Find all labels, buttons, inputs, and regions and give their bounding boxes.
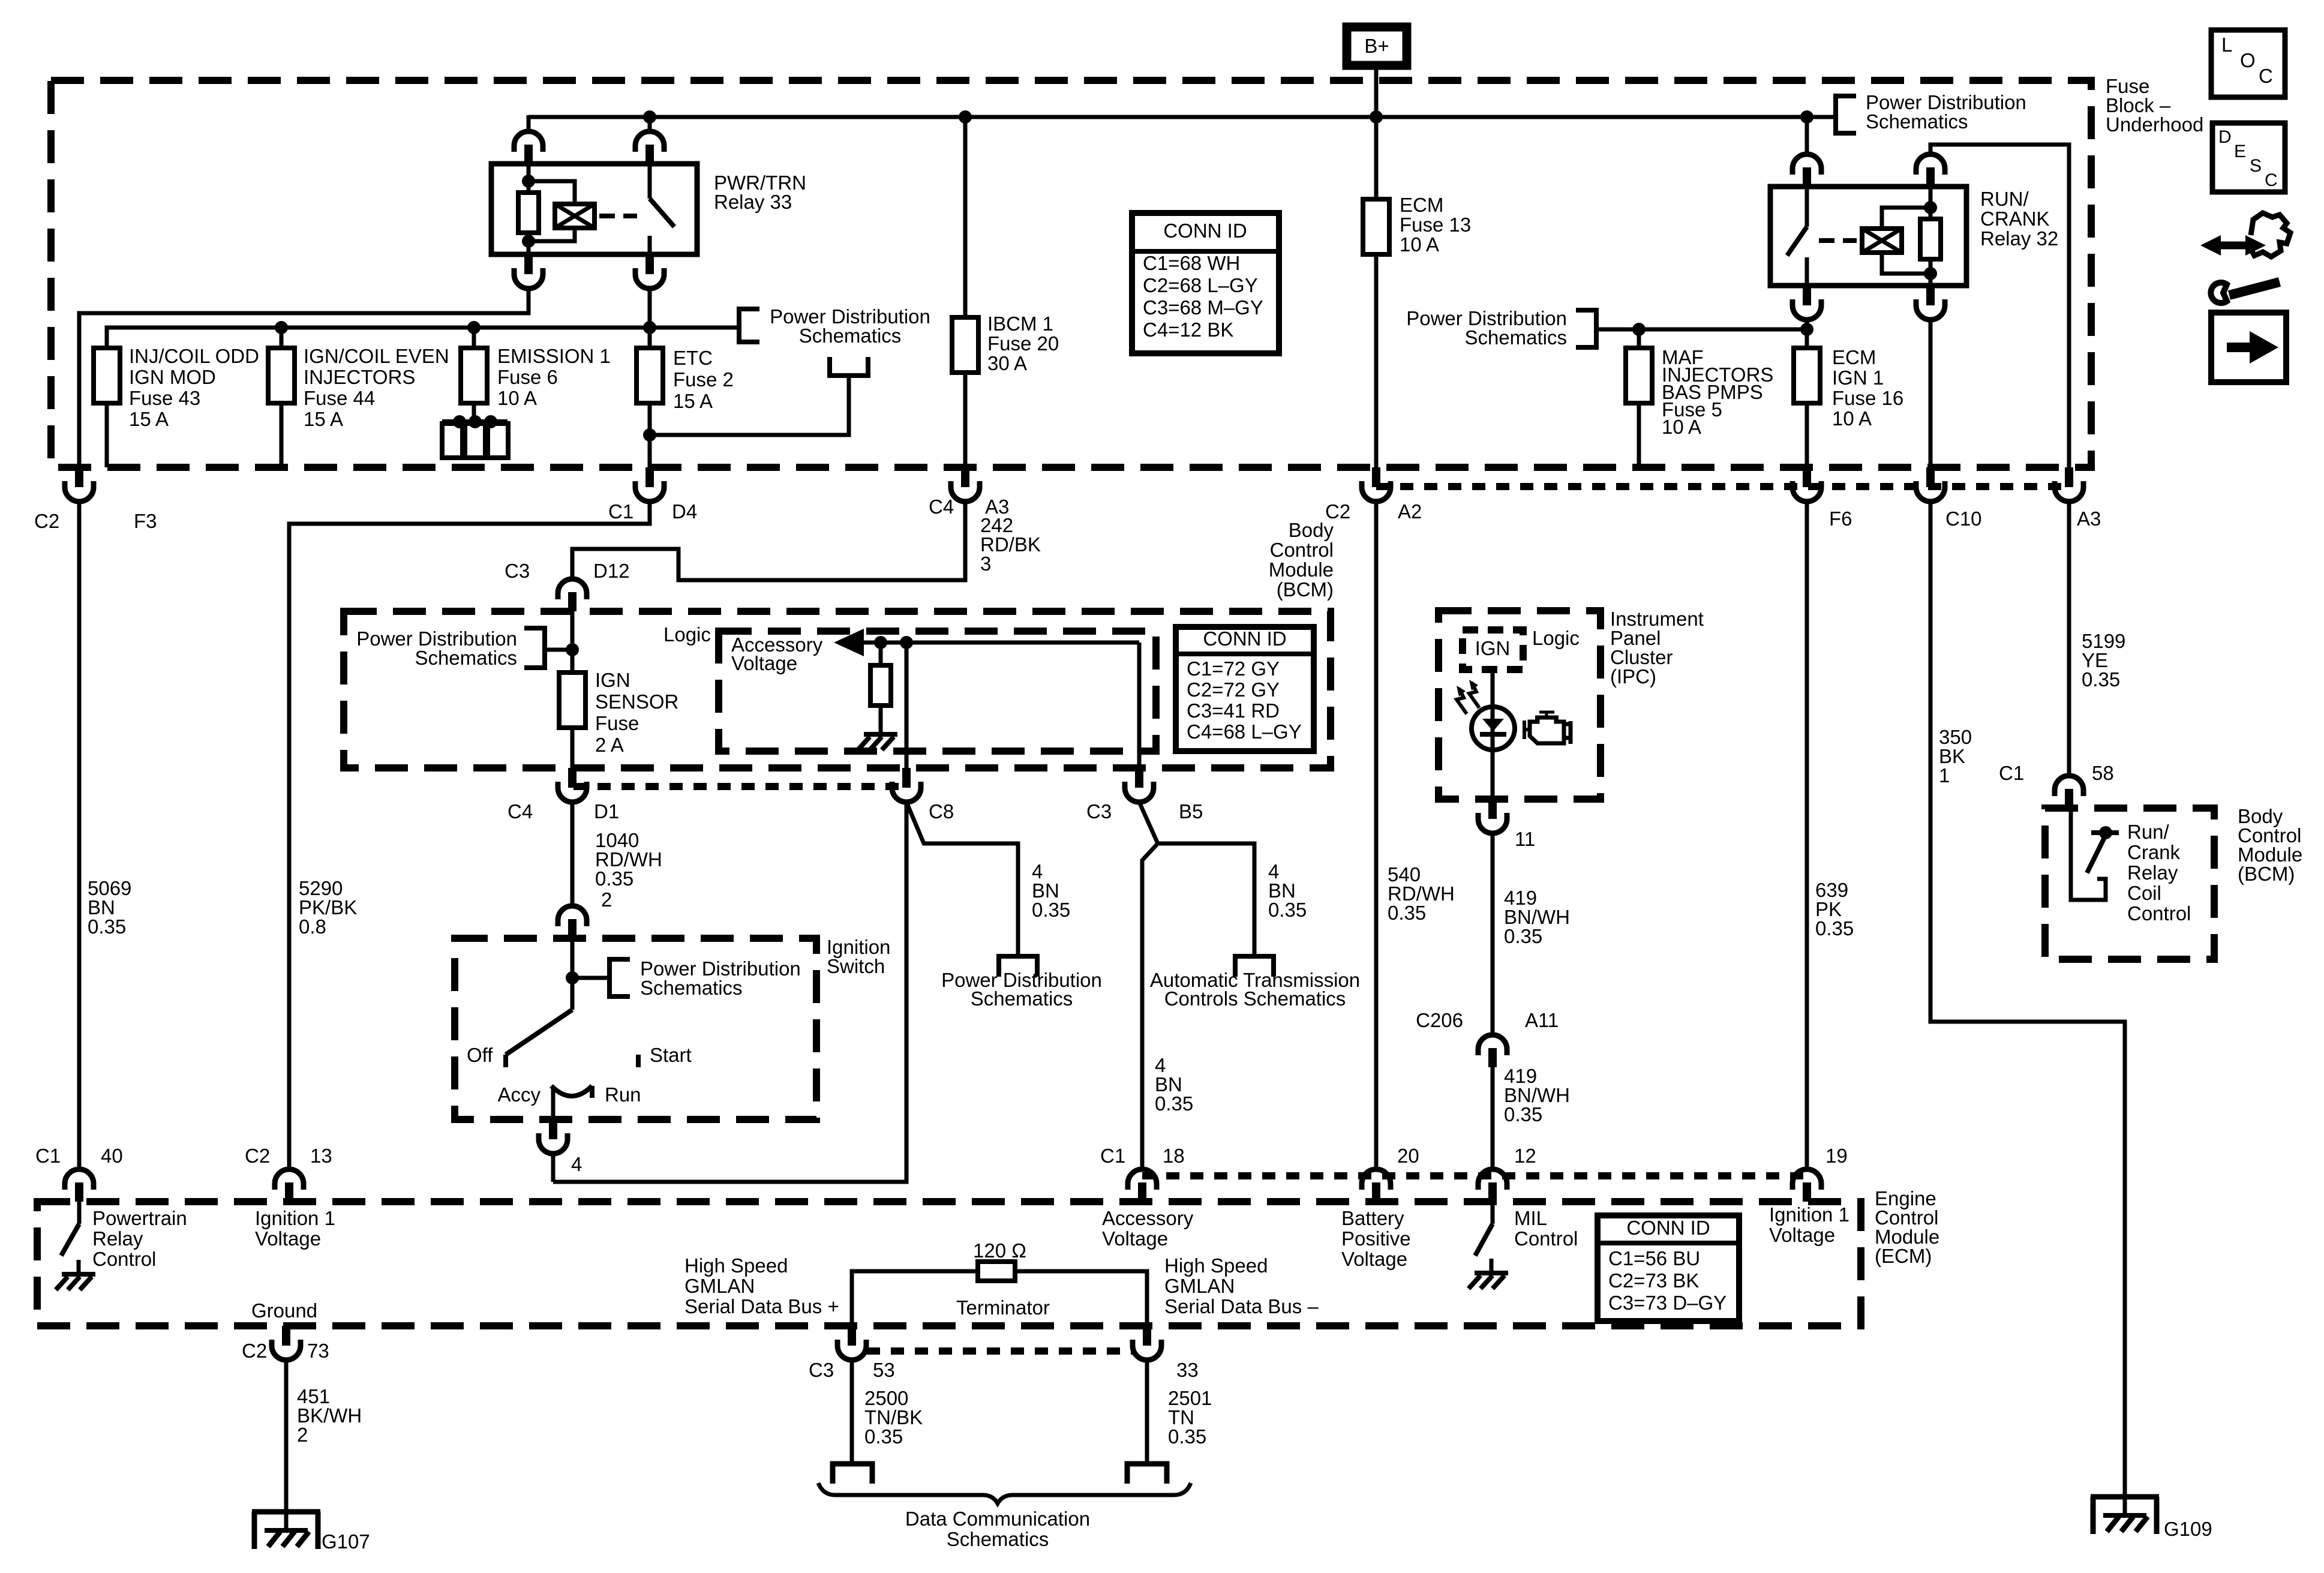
svg-text:C: C: [2259, 65, 2273, 87]
svg-text:Run/: Run/: [2127, 821, 2170, 843]
svg-text:C4: C4: [929, 496, 954, 518]
svg-text:Schematics: Schematics: [640, 977, 743, 999]
fuse F2 ETC: [648, 328, 652, 348]
svg-text:10 A: 10 A: [497, 387, 537, 409]
svg-text:INJ/COIL ODD: INJ/COIL ODD: [129, 345, 259, 367]
svg-text:GMLAN: GMLAN: [1164, 1275, 1235, 1297]
svg-text:L: L: [2221, 34, 2232, 56]
svg-text:Relay 33: Relay 33: [714, 191, 792, 213]
svg-text:Off: Off: [467, 1044, 493, 1066]
svg-text:O: O: [2240, 49, 2256, 71]
svg-text:Ground: Ground: [251, 1299, 317, 1322]
instrument panel cluster box: [1439, 611, 1601, 799]
svg-text:CONN ID: CONN ID: [1203, 628, 1286, 650]
svg-text:Voltage: Voltage: [731, 652, 797, 674]
fuse F43 INJ/COIL ODD: [94, 348, 120, 403]
svg-text:0.35: 0.35: [1168, 1425, 1206, 1448]
svg-text:0.35: 0.35: [864, 1425, 903, 1448]
svg-text:A2: A2: [1398, 500, 1422, 523]
MIL control switch: [1491, 1202, 1495, 1224]
body control module box: [344, 611, 1331, 768]
svg-text:Fuse 20: Fuse 20: [987, 332, 1059, 355]
svg-text:CONN ID: CONN ID: [1626, 1217, 1710, 1239]
svg-text:1: 1: [1939, 764, 1950, 786]
svg-text:0.35: 0.35: [595, 867, 633, 890]
connector C4/A3: [961, 467, 969, 487]
connector C2/A2: [1372, 467, 1380, 487]
svg-text:Fuse 6: Fuse 6: [497, 366, 558, 388]
relay33 coil resistor: [527, 181, 531, 193]
ground MIL control: [1490, 1259, 1494, 1273]
wire B+ to bus: [1374, 68, 1379, 117]
svg-text:Serial Data Bus –: Serial Data Bus –: [1164, 1295, 1319, 1317]
dotted connector face line (ECM): [1142, 1172, 1807, 1179]
relay33 actuator dashes: [599, 214, 637, 218]
svg-text:C4=68 L–GY: C4=68 L–GY: [1187, 721, 1302, 743]
svg-text:Coil: Coil: [2127, 882, 2161, 904]
svg-text:G109: G109: [2164, 1518, 2212, 1540]
wire C8 branch to power dist: [906, 802, 1018, 956]
connector ECM pin 20: [1362, 1169, 1391, 1190]
dotted connector face line (BCM): [574, 783, 905, 790]
icon navigate arrows with wrench: [2220, 242, 2247, 250]
svg-text:30 A: 30 A: [987, 352, 1027, 374]
svg-text:Logic: Logic: [663, 623, 711, 646]
connector ignition pin 4: [549, 1119, 557, 1139]
svg-text:C: C: [2265, 170, 2278, 190]
relay K33 PWR/TRN Relay 33 box: [491, 164, 697, 254]
fuse IGN SENSOR 2A: [559, 673, 585, 728]
svg-text:INJECTORS: INJECTORS: [304, 366, 415, 388]
svg-text:Underhood: Underhood: [2106, 113, 2203, 136]
node rail-etc: [643, 321, 656, 334]
node bus-relay33-sw: [643, 110, 656, 124]
svg-text:B+: B+: [1364, 35, 1389, 57]
svg-text:Schematics: Schematics: [1464, 326, 1567, 349]
relay33 switch blade: [648, 164, 652, 199]
svg-text:Accy: Accy: [497, 1083, 541, 1106]
power feed B+: [1347, 27, 1407, 65]
icon wrench: [2211, 283, 2227, 303]
connector ECM pin 19: [1792, 1169, 1821, 1190]
connector relay32 switch bottom: [1803, 286, 1811, 305]
wire pin 4 to C8: [551, 1154, 556, 1182]
svg-text:0.35: 0.35: [1155, 1092, 1193, 1115]
wire D12 to ign sensor fuse: [571, 611, 575, 673]
svg-text:0.8: 0.8: [299, 915, 326, 938]
svg-text:15 A: 15 A: [304, 408, 343, 430]
svg-text:Module: Module: [1269, 559, 1334, 581]
node av-C8: [900, 636, 913, 649]
ignition switch box: [455, 938, 816, 1119]
svg-text:(IPC): (IPC): [1610, 665, 1656, 688]
connector ECM pin 33: [1143, 1326, 1151, 1346]
wire 540 RD/WH A2 to ECM pin 20: [1374, 502, 1379, 1168]
svg-text:Data Communication: Data Communication: [905, 1508, 1090, 1530]
svg-text:C3=73 D–GY: C3=73 D–GY: [1608, 1292, 1727, 1314]
connector C1/D4: [645, 467, 654, 487]
svg-text:0.35: 0.35: [1268, 899, 1307, 921]
svg-text:C3: C3: [505, 560, 530, 582]
relay33 coil loop: [529, 181, 575, 241]
wire fuse rail: [107, 328, 739, 348]
svg-text:Schematics: Schematics: [415, 647, 517, 669]
relay32 coil resistor: [1924, 201, 1937, 214]
node rail-fuse6: [467, 321, 481, 334]
svg-text:E: E: [2234, 142, 2246, 161]
connector C206/A11: [1478, 1035, 1507, 1055]
svg-text:10 A: 10 A: [1662, 416, 1701, 438]
fuse F44 IGN/COIL EVEN: [280, 328, 284, 348]
relay32 coil loop: [1882, 208, 1930, 274]
wire 5069 BN to ECM pin 40: [77, 502, 82, 1168]
connector ECM pin 13: [275, 1169, 304, 1190]
multi-output symbol below fuse 6: [442, 419, 508, 424]
engine icon: [1539, 711, 1554, 714]
bracket power distribution schematics (rail): [739, 309, 759, 342]
svg-text:Control: Control: [1514, 1227, 1578, 1250]
wire accy output: [551, 1087, 556, 1119]
wire etc to power dist bracket: [650, 376, 849, 435]
svg-text:C2: C2: [34, 510, 59, 532]
connector ECM ground C2/73: [282, 1326, 290, 1346]
svg-text:19: 19: [1825, 1145, 1848, 1167]
connector ECM C1 pin 18: [1128, 1169, 1157, 1190]
wire relay32 coil bottom to C10: [1929, 320, 1933, 467]
svg-text:0.35: 0.35: [1388, 902, 1426, 924]
svg-text:CONN ID: CONN ID: [1163, 220, 1247, 242]
bracket power distribution schematics (rail2): [1576, 310, 1596, 347]
svg-text:IGN: IGN: [1475, 637, 1511, 659]
relay32 switch lower contact: [1805, 257, 1809, 286]
bracket power distribution (etc): [830, 357, 868, 376]
ignition switch blade: [506, 1010, 572, 1055]
node av-resistor: [874, 636, 887, 649]
run crank relay coil control switch: [2071, 808, 2106, 900]
BCM logic box: [719, 631, 1156, 751]
fuse F6 EMISSION 1: [472, 328, 476, 348]
node bus-relay32: [1800, 110, 1813, 124]
connector C10: [1926, 467, 1935, 487]
svg-text:Schematics: Schematics: [947, 1528, 1049, 1550]
svg-text:Fuse 43: Fuse 43: [129, 387, 200, 409]
svg-text:120 Ω: 120 Ω: [973, 1239, 1026, 1262]
svg-text:GMLAN: GMLAN: [684, 1275, 755, 1297]
wire bus to relay32 switch: [1805, 117, 1809, 153]
node rail-fuse44: [275, 321, 288, 334]
wire relay32 coil top to A3 feed: [1930, 145, 2069, 467]
svg-text:53: 53: [873, 1359, 895, 1381]
connector relay32 switch top: [1792, 154, 1821, 175]
connector relay33 coil bottom: [524, 254, 533, 274]
svg-text:EMISSION 1: EMISSION 1: [497, 345, 611, 367]
svg-text:C1: C1: [1100, 1145, 1125, 1167]
connector relay33 coil top: [514, 131, 543, 152]
svg-text:C2=68 L–GY: C2=68 L–GY: [1143, 274, 1258, 296]
svg-text:Accessory: Accessory: [1102, 1207, 1194, 1229]
connector IPC pin 11: [1488, 799, 1497, 819]
svg-text:2: 2: [601, 888, 612, 911]
connector C8: [902, 768, 911, 788]
connector id table (BCM): [1176, 627, 1314, 751]
svg-text:Fuse 13: Fuse 13: [1400, 214, 1471, 236]
svg-text:15 A: 15 A: [129, 408, 169, 430]
svg-text:Voltage: Voltage: [255, 1227, 321, 1250]
svg-text:D12: D12: [593, 560, 630, 582]
svg-text:Terminator: Terminator: [956, 1296, 1050, 1319]
fuse F5 MAF INJECTORS BAS PMPS: [1637, 329, 1641, 348]
wire main B+ bus: [529, 115, 1836, 119]
svg-text:(BCM): (BCM): [1277, 578, 1334, 601]
wire B5 branch to A/T controls: [1139, 802, 1254, 956]
ground powertrain relay control: [77, 1260, 81, 1274]
svg-text:Relay: Relay: [92, 1227, 143, 1250]
svg-text:Serial Data Bus +: Serial Data Bus +: [684, 1295, 839, 1317]
wire rail2: [1596, 328, 1807, 332]
connector relay32 coil top: [1916, 154, 1945, 175]
bracket power distribution schematics (BCM): [524, 628, 545, 668]
svg-text:58: 58: [2092, 762, 2114, 784]
svg-text:C2: C2: [245, 1145, 270, 1167]
svg-text:Controls Schematics: Controls Schematics: [1164, 987, 1346, 1010]
node ign sensor fuse top: [566, 643, 579, 656]
svg-text:Powertrain: Powertrain: [92, 1207, 187, 1229]
svg-text:20: 20: [1397, 1145, 1419, 1167]
svg-text:Fuse: Fuse: [595, 712, 639, 734]
icon DESC box: [2212, 123, 2285, 192]
connector A3 right: [2065, 467, 2073, 487]
svg-text:Ignition 1: Ignition 1: [255, 1207, 335, 1229]
svg-text:0.35: 0.35: [1032, 899, 1070, 921]
svg-text:A3: A3: [2077, 508, 2101, 530]
svg-text:Control: Control: [2127, 902, 2191, 924]
wire bus to fuse20: [963, 117, 968, 317]
svg-text:IGN 1: IGN 1: [1832, 367, 1884, 389]
resistor BCM pull-down: [879, 643, 883, 665]
svg-text:Voltage: Voltage: [1769, 1224, 1835, 1246]
wire 1040 RD/WH D1 to ignition switch: [571, 802, 575, 905]
node bus-ibcm: [959, 110, 972, 124]
svg-text:RUN/: RUN/: [1980, 188, 2029, 210]
wire 419 BN/WH C206 to ECM pin 12: [1491, 1067, 1495, 1168]
svg-text:C3: C3: [809, 1359, 834, 1381]
wire relay33 switch to fuse rail: [648, 289, 652, 328]
connector relay33 switch top: [635, 131, 664, 152]
relay33 coil wire: [527, 164, 531, 181]
wire 639 PK F6 to ECM pin 19: [1805, 502, 1809, 1168]
svg-text:Control: Control: [92, 1248, 156, 1270]
svg-text:C1=56 BU: C1=56 BU: [1608, 1247, 1700, 1269]
svg-text:Switch: Switch: [827, 955, 885, 977]
svg-text:C10: C10: [1945, 508, 1982, 530]
svg-text:A11: A11: [1525, 1009, 1559, 1031]
svg-text:4: 4: [571, 1153, 582, 1175]
connector relay33 switch bottom: [645, 254, 654, 274]
svg-text:Body: Body: [1289, 519, 1334, 541]
svg-text:IGN MOD: IGN MOD: [129, 366, 216, 388]
wire av to B5: [1137, 643, 1142, 768]
wire relay32 switch to rail2: [1805, 320, 1809, 348]
fuse F20 IBCM 1: [952, 317, 978, 373]
svg-text:C3=41 RD: C3=41 RD: [1187, 700, 1280, 722]
svg-text:S: S: [2250, 156, 2262, 176]
svg-text:0.35: 0.35: [88, 915, 126, 938]
terminal data bus -: [1127, 1464, 1167, 1484]
svg-text:Voltage: Voltage: [1341, 1248, 1407, 1270]
bracket automatic transmission (B5): [1235, 956, 1274, 977]
wire 350 BK C10 to G109: [1930, 502, 2125, 1497]
svg-text:IBCM 1: IBCM 1: [987, 313, 1053, 335]
connector id table (fuse block): [1132, 213, 1279, 353]
wire relay33 coil to F3: [79, 289, 529, 467]
svg-text:12: 12: [1514, 1145, 1536, 1167]
relay32 switch blade: [1805, 187, 1809, 227]
svg-text:SENSOR: SENSOR: [595, 691, 678, 713]
svg-text:13: 13: [310, 1145, 332, 1167]
svg-text:High Speed: High Speed: [684, 1254, 788, 1277]
dotted connector face line (data bus): [867, 1347, 1133, 1355]
ground G109: [2091, 1494, 2159, 1500]
fuse F13 ECM: [1363, 199, 1389, 254]
svg-text:0.35: 0.35: [2082, 668, 2120, 691]
contact Off: [503, 1055, 508, 1067]
icon LOC box: [2211, 30, 2285, 97]
dotted connector face line (fuse block): [1376, 483, 2069, 490]
wire C8 to ignition switch accessory: [553, 802, 906, 1182]
svg-text:C1: C1: [1999, 762, 2024, 784]
svg-text:D1: D1: [594, 800, 619, 822]
contact Start: [636, 1055, 641, 1067]
svg-text:15 A: 15 A: [673, 390, 713, 412]
svg-text:MIL: MIL: [1514, 1207, 1547, 1229]
connector id table (ECM): [1598, 1215, 1739, 1321]
connector ECM pin 12: [1478, 1169, 1507, 1190]
svg-text:Control: Control: [1270, 539, 1334, 561]
svg-text:Fuse 44: Fuse 44: [304, 387, 375, 409]
indicator LED MIL lamp: [1472, 707, 1515, 750]
svg-text:Battery: Battery: [1341, 1207, 1404, 1229]
svg-text:High Speed: High Speed: [1164, 1254, 1268, 1277]
node etc-powerdist: [643, 428, 656, 442]
svg-text:CRANK: CRANK: [1980, 208, 2050, 230]
svg-text:0.35: 0.35: [1815, 917, 1854, 939]
powertrain relay control switch: [77, 1202, 82, 1224]
svg-text:ECM: ECM: [1400, 194, 1443, 216]
svg-text:10 A: 10 A: [1400, 233, 1439, 256]
svg-text:11: 11: [1515, 828, 1535, 850]
node bus-B+: [1370, 110, 1383, 124]
svg-text:0.35: 0.35: [1504, 925, 1542, 947]
svg-text:F6: F6: [1829, 508, 1852, 530]
svg-text:C2=73 BK: C2=73 BK: [1608, 1269, 1699, 1292]
svg-text:Fuse 2: Fuse 2: [673, 368, 734, 391]
run/crank BCM box: [2045, 808, 2214, 959]
svg-text:ECM: ECM: [1832, 346, 1876, 368]
svg-text:Voltage: Voltage: [1102, 1227, 1168, 1250]
engine control module box: [37, 1202, 1861, 1326]
LED arrows: [1457, 688, 1467, 714]
svg-text:C4: C4: [508, 800, 533, 822]
resistor terminator 120 ohm: [978, 1262, 1015, 1281]
svg-text:IGN/COIL EVEN: IGN/COIL EVEN: [304, 345, 449, 367]
wire C8 drop: [905, 643, 909, 768]
svg-text:Schematics: Schematics: [971, 987, 1073, 1010]
terminal data bus +: [833, 1464, 872, 1484]
svg-text:D: D: [2218, 127, 2232, 147]
svg-text:10 A: 10 A: [1832, 407, 1872, 430]
bracket power distribution schematics (bus): [1836, 96, 1856, 133]
brace data communication: [818, 1483, 1191, 1503]
svg-text:C8: C8: [929, 800, 954, 822]
connector BCM pin 58: [2055, 776, 2083, 796]
svg-text:C2=72 GY: C2=72 GY: [1187, 679, 1280, 701]
svg-text:2 A: 2 A: [595, 734, 624, 756]
connector C4/D1: [568, 768, 577, 788]
wire 5199 YE A3 to BCM 58: [2067, 502, 2071, 775]
svg-text:2: 2: [297, 1424, 308, 1446]
bracket power distribution (C8): [999, 956, 1037, 977]
svg-text:Schematics: Schematics: [1866, 110, 1968, 133]
svg-text:C3=68 M–GY: C3=68 M–GY: [1143, 296, 1263, 319]
connector F6: [1803, 467, 1811, 487]
ignition accessory-run contact arc: [551, 1086, 592, 1096]
svg-text:33: 33: [1176, 1359, 1199, 1381]
svg-text:C4=12 BK: C4=12 BK: [1143, 319, 1233, 341]
svg-text:Run: Run: [605, 1083, 641, 1106]
wire 451 BK/WH to G107: [284, 1360, 289, 1512]
svg-text:C1: C1: [35, 1145, 61, 1167]
svg-text:IGN: IGN: [595, 669, 630, 691]
svg-text:Ignition 1: Ignition 1: [1769, 1203, 1849, 1226]
svg-text:40: 40: [101, 1145, 123, 1167]
ground G107: [252, 1509, 320, 1515]
ground BCM logic: [879, 720, 883, 734]
wire B5 to ECM accessory voltage: [1142, 843, 1158, 1168]
wire ignition feed: [571, 938, 575, 1010]
svg-text:Relay: Relay: [2127, 861, 2178, 884]
connector C3/D12: [558, 579, 587, 599]
svg-text:73: 73: [307, 1340, 329, 1362]
svg-text:C1: C1: [608, 500, 633, 523]
svg-text:(ECM): (ECM): [1875, 1245, 1932, 1267]
connector relay32 coil bottom: [1926, 286, 1935, 305]
svg-text:Positive: Positive: [1341, 1227, 1411, 1250]
fuse F16 ECM IGN 1: [1794, 348, 1820, 403]
wire 5290 PK/BK D4 to ECM pin 13: [289, 502, 650, 1168]
fuse block underhood module box: [51, 80, 2091, 467]
wire IGN to indicator: [1491, 670, 1495, 799]
svg-text:Start: Start: [650, 1044, 692, 1066]
wire accessory voltage logic line: [862, 641, 1139, 645]
svg-text:18: 18: [1163, 1145, 1185, 1167]
svg-text:Fuse 16: Fuse 16: [1832, 387, 1903, 409]
svg-text:Crank: Crank: [2127, 841, 2181, 863]
svg-text:C3: C3: [1086, 800, 1112, 822]
svg-text:G107: G107: [322, 1530, 370, 1553]
wire relay33 switch top: [648, 117, 652, 130]
connector ECM pin 40: [65, 1169, 94, 1190]
wire 419 BN/WH IPC to C206: [1491, 833, 1495, 1034]
relay32 actuator dashes: [1819, 238, 1857, 243]
relay32 coil winding symbol: [1862, 229, 1902, 253]
connector C2/F3: [75, 467, 83, 487]
wire bus to fuse13: [1374, 117, 1379, 199]
icon forward arrow box: [2211, 313, 2286, 382]
svg-text:C2: C2: [242, 1340, 267, 1362]
connector ECM C3 pin 53: [848, 1326, 856, 1346]
svg-text:ETC: ETC: [673, 347, 713, 369]
svg-text:F3: F3: [134, 510, 157, 532]
